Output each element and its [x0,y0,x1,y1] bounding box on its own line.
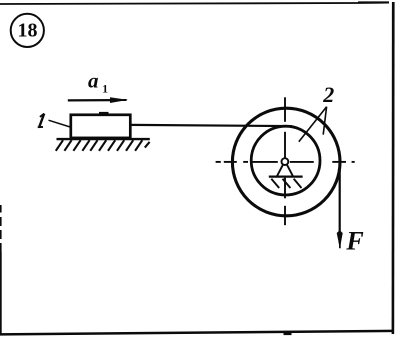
svg-text:F: F [345,226,363,255]
svg-text:2: 2 [322,82,334,107]
pivot support triangle right side [287,165,293,177]
svg-text:a: a [88,69,99,93]
vertical centerline segments [284,97,286,225]
label 1 (block) [38,114,45,128]
leader line from 2 to inner circle [299,107,327,142]
frame left border dash 2 [0,217,2,226]
ground line under block [57,138,150,140]
pulley outer circle [232,108,340,216]
leader line from 2 to rim [323,107,326,135]
block 1 body [71,115,131,138]
frame left border (solid lower part) [0,252,2,334]
frame left border dash 3 [0,230,2,239]
horizontal centerline segments [216,161,355,163]
frame top border [0,1,389,5]
pivot support base line [269,176,303,178]
pulley inner circle [251,126,320,195]
pivot pin circle [282,158,289,165]
ground hatch strokes [56,140,150,151]
force F rope (vertical shaft) [339,162,341,244]
svg-text:1: 1 [102,84,108,96]
force F arrow head [337,230,343,248]
frame left border dash 4 [0,243,2,252]
pivot base hatch strokes [271,179,301,188]
frame left border dash 1 [0,205,2,213]
acceleration arrow head [110,97,128,103]
frame right border [392,2,395,334]
acceleration arrow shaft [68,99,114,102]
leader line from label 1 to block [49,120,75,128]
svg-text:18: 18 [18,20,38,42]
block top edge thick mark [99,112,109,115]
rope from block to pulley [131,125,293,126]
pivot support triangle left side [277,165,283,177]
frame bottom border [0,330,394,336]
problem number badge circle 18 [11,14,44,47]
bottom border blob [284,332,292,336]
